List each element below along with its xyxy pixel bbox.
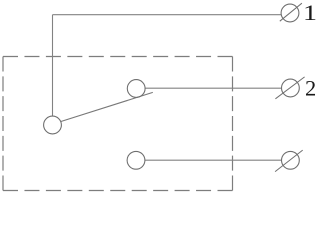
svg-text:2: 2 — [305, 76, 316, 101]
svg-text:1: 1 — [303, 0, 317, 25]
